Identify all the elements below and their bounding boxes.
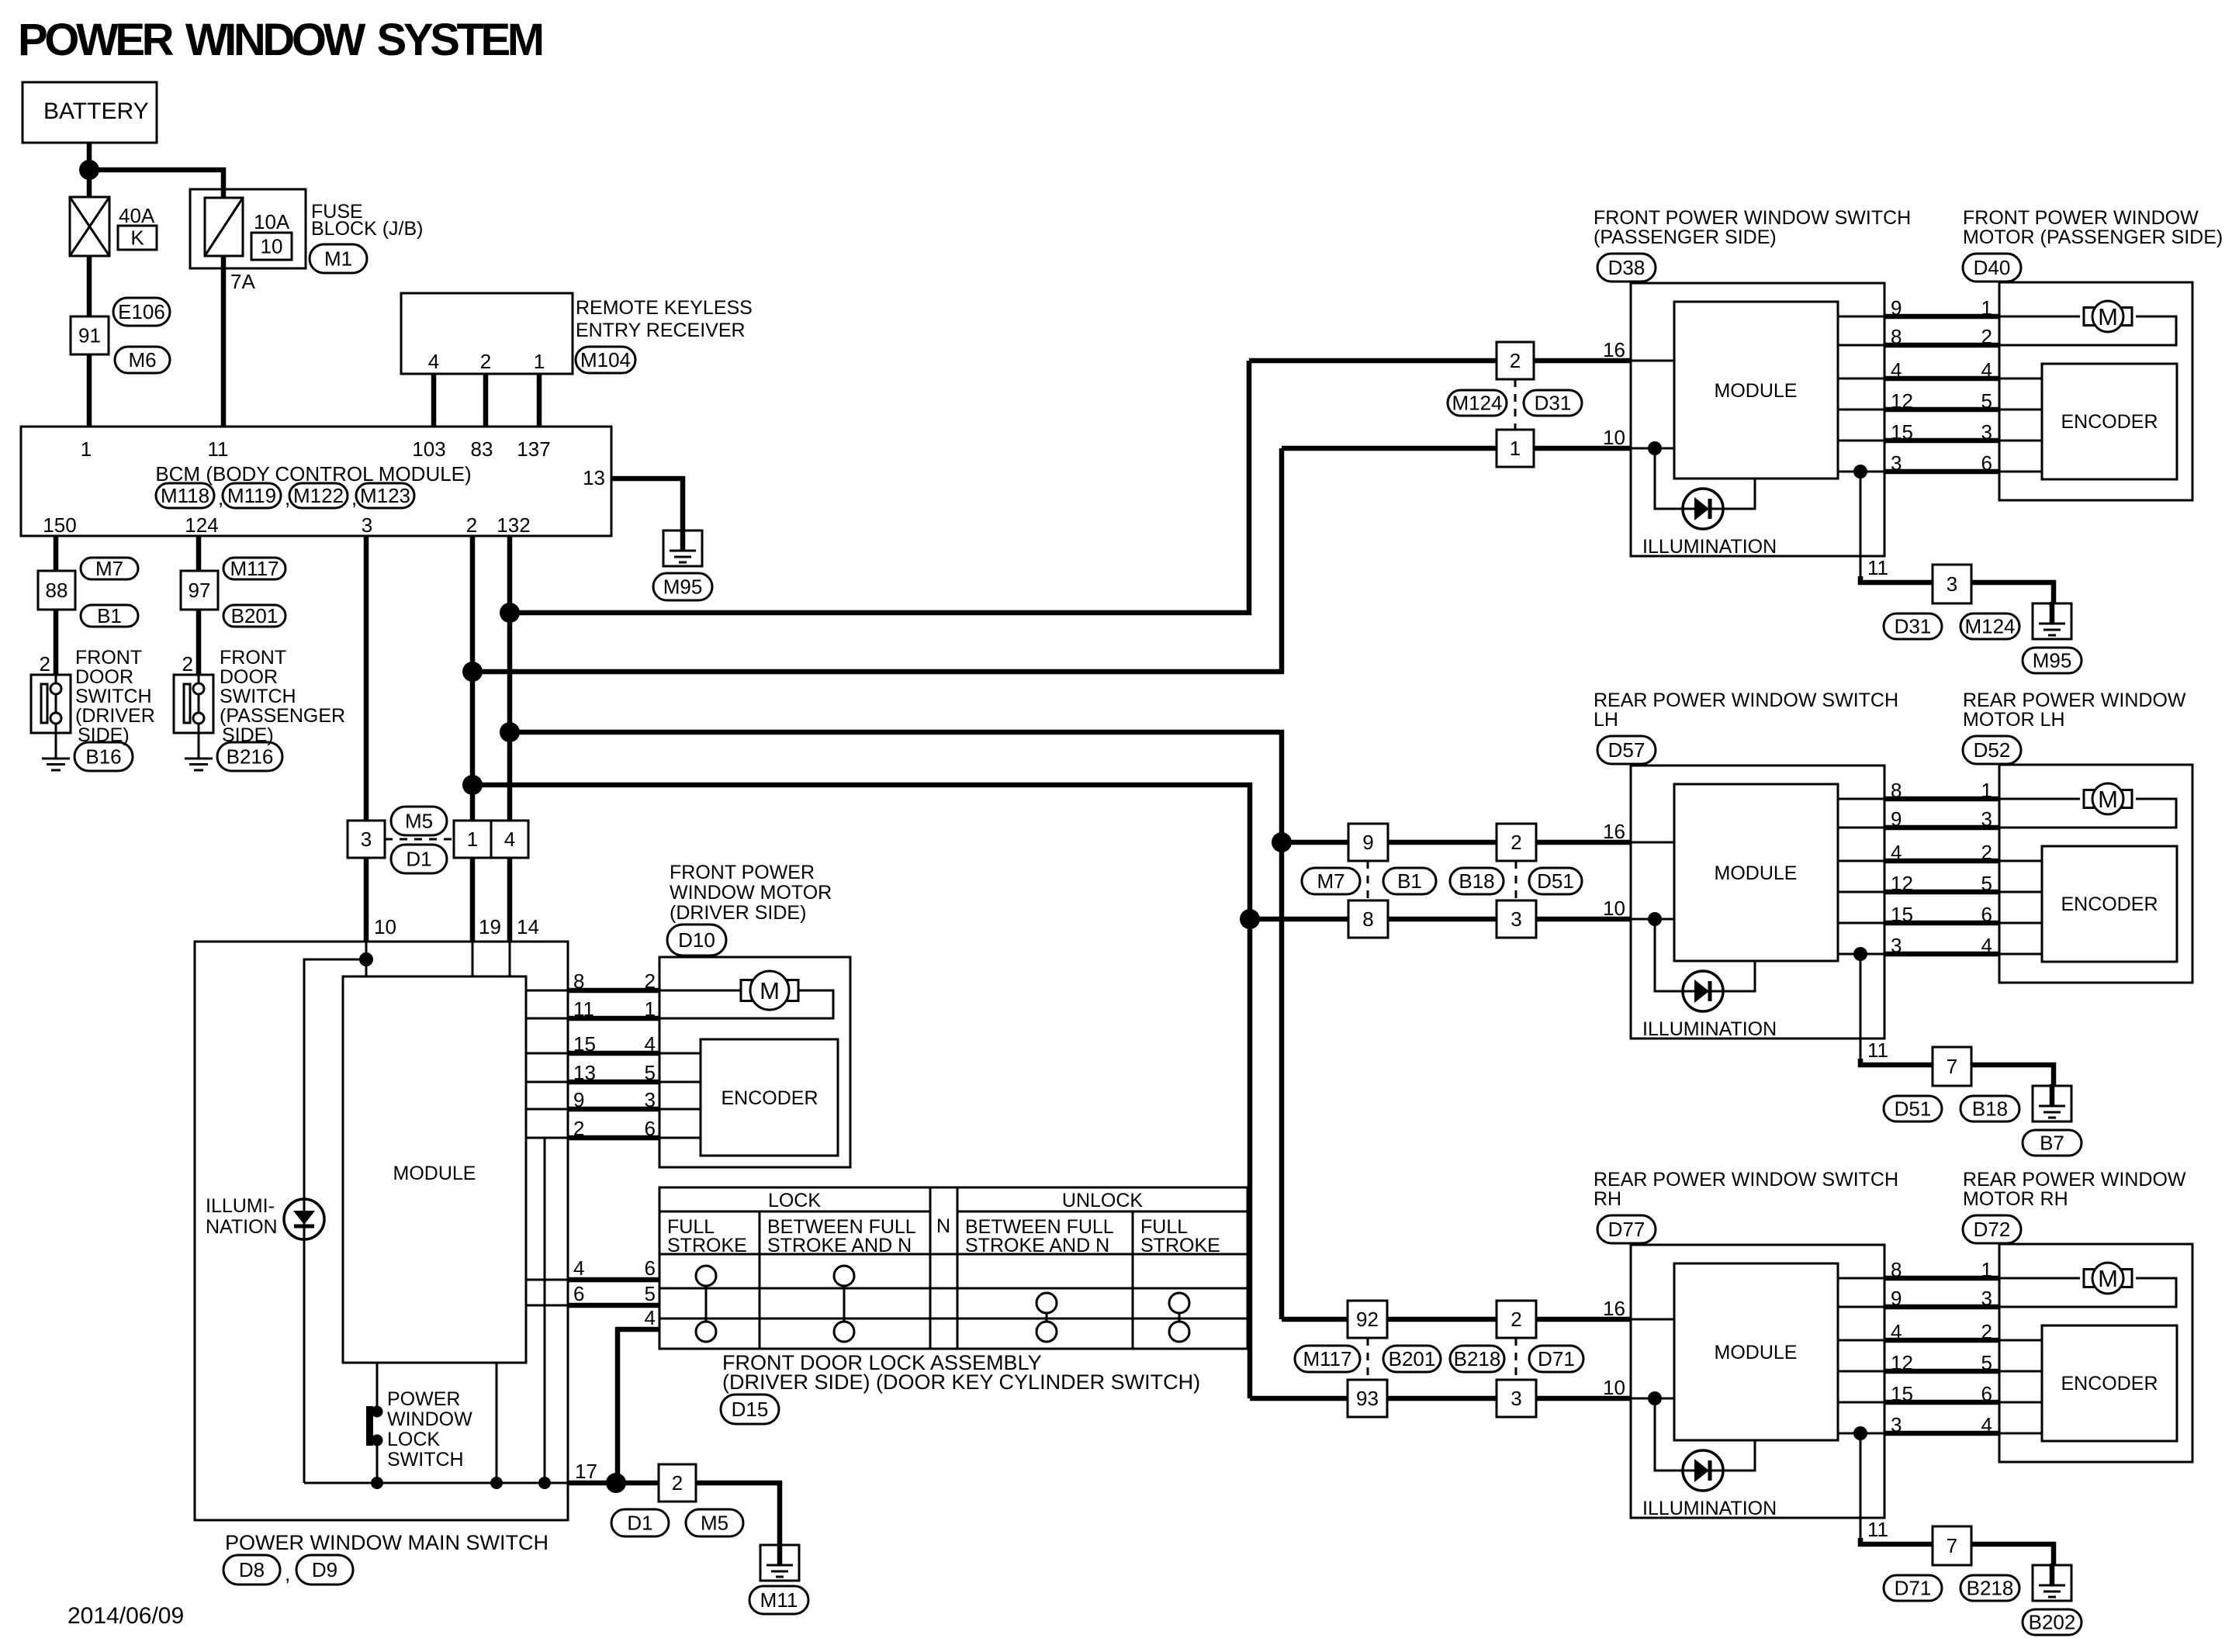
connector 88 box M7/B1 — [38, 571, 75, 610]
svg-text:ILLUMINATION: ILLUMINATION — [1642, 1498, 1777, 1519]
rear LH switch outer box — [1631, 766, 1884, 1039]
svg-text:6: 6 — [1981, 1382, 1992, 1405]
svg-text:19: 19 — [479, 915, 501, 938]
svg-text:SIDE): SIDE) — [222, 724, 274, 746]
svg-text:ENTRY RECEIVER: ENTRY RECEIVER — [576, 320, 746, 341]
front passenger wire 16 feed — [1249, 358, 1631, 364]
svg-text:2: 2 — [1981, 841, 1992, 864]
svg-text:4: 4 — [1891, 358, 1902, 382]
svg-text:POWER: POWER — [387, 1388, 460, 1410]
svg-text:N: N — [936, 1215, 950, 1237]
front door lock assembly table box — [659, 1187, 1248, 1349]
svg-text:1: 1 — [645, 997, 656, 1021]
rear RH connector B218 oval — [1960, 1575, 2019, 1601]
rear RH wire switch pin 15 to motor pin 6 — [1838, 1401, 1884, 1404]
rear RH wire switch pin 3 to motor pin 4 — [1838, 1433, 1884, 1435]
svg-text:D51: D51 — [1537, 869, 1574, 893]
rear RH wire 10 into module — [1631, 1398, 1674, 1400]
svg-text:M119: M119 — [227, 484, 276, 507]
connector 10 box — [251, 233, 292, 260]
connector M104 — [576, 347, 635, 373]
svg-text:D57: D57 — [1608, 738, 1646, 762]
junction bus1 on pin132 wire — [500, 603, 520, 623]
rear LH wire 10 into module — [1631, 918, 1674, 921]
svg-text:7: 7 — [1947, 1534, 1957, 1557]
wire battery to BCM pin 1 — [87, 143, 92, 427]
rear LH encoder box — [2042, 846, 2177, 962]
svg-text:B201: B201 — [231, 604, 279, 627]
svg-text:MODULE: MODULE — [1715, 380, 1798, 402]
svg-text:4: 4 — [1981, 1413, 1992, 1436]
table N column right line — [957, 1187, 959, 1349]
svg-text:3: 3 — [1891, 934, 1902, 957]
svg-text:5: 5 — [645, 1282, 656, 1305]
rear RH wires rows to encoder — [1999, 1339, 2042, 1342]
wire key cylinder pin4 down — [618, 1329, 659, 1483]
svg-text:D1: D1 — [627, 1512, 652, 1535]
connector D1 oval — [391, 845, 447, 873]
rear LH wire switch pin 3 to motor pin 4 — [1838, 953, 1884, 956]
svg-text:DOOR: DOOR — [75, 666, 133, 688]
connector D57 oval — [1597, 736, 1656, 764]
svg-text:40A: 40A — [119, 204, 155, 227]
svg-text:LOCK: LOCK — [387, 1429, 440, 1450]
svg-text:3: 3 — [1981, 1287, 1992, 1310]
ground B216 — [185, 758, 213, 760]
remote keyless entry receiver box M104 — [401, 293, 573, 374]
front passenger connector box 2 — [1497, 342, 1534, 379]
svg-text:103: 103 — [412, 437, 445, 461]
front door switch (passenger side) box — [198, 675, 200, 758]
wire motor row1 to M — [659, 990, 744, 992]
connector M11 oval — [749, 1586, 808, 1614]
wire BCM pin 13 to ground M95 — [611, 479, 683, 532]
svg-text:6: 6 — [645, 1256, 656, 1280]
svg-text:9: 9 — [1362, 831, 1373, 854]
svg-text:8: 8 — [1891, 325, 1902, 348]
connector B201 oval — [223, 605, 285, 627]
junction bus3 on pin132 wire — [500, 722, 520, 742]
fuse 10A symbol — [205, 198, 243, 256]
rear LH junction illumination tap — [1648, 912, 1662, 926]
rear LH wire switch pin 15 to motor pin 6 — [1838, 922, 1884, 924]
connector M122 — [289, 483, 348, 508]
front passenger connector M95 oval — [2023, 648, 2082, 673]
connector K box — [118, 226, 157, 250]
svg-text:M11: M11 — [760, 1588, 798, 1612]
svg-text:REAR POWER WINDOW: REAR POWER WINDOW — [1963, 689, 2186, 711]
front passenger motor outer box — [1999, 282, 2192, 500]
svg-text:4: 4 — [1981, 358, 1992, 382]
rear RH encoder box — [2042, 1325, 2177, 1441]
front passenger connector M124 oval — [1960, 613, 2019, 639]
connector 97 box M117/B201 — [181, 571, 218, 610]
svg-text:M124: M124 — [1452, 392, 1502, 415]
svg-text:88: 88 — [46, 579, 68, 602]
svg-text:15: 15 — [1891, 903, 1913, 926]
junction rail lock switch — [371, 1477, 383, 1489]
connector M5/D1 box 3 — [348, 821, 385, 858]
connector M6 — [115, 347, 170, 373]
svg-text:16: 16 — [1603, 1297, 1625, 1320]
rear RH junction pin 11 tap — [1853, 1426, 1867, 1440]
rear LH wire 10 feed — [1250, 917, 1631, 922]
svg-text:124: 124 — [185, 513, 218, 537]
junction battery feed split — [79, 160, 99, 180]
svg-text:2: 2 — [645, 969, 656, 993]
junction rear LH 10 — [1240, 909, 1260, 929]
svg-text:ENCODER: ENCODER — [721, 1087, 818, 1109]
svg-text:6: 6 — [645, 1117, 656, 1140]
dashed link B218 D71 — [1515, 1338, 1517, 1380]
svg-text:M122: M122 — [293, 484, 344, 507]
svg-text:B202: B202 — [2029, 1611, 2076, 1634]
svg-text:REMOTE KEYLESS: REMOTE KEYLESS — [576, 297, 753, 319]
svg-text:3: 3 — [1891, 1413, 1902, 1436]
connector B218 oval rear RH — [1450, 1346, 1504, 1372]
svg-text:K: K — [130, 226, 144, 250]
svg-text:M5: M5 — [701, 1512, 728, 1535]
connector M124 oval front — [1448, 390, 1507, 416]
svg-text:M95: M95 — [2033, 649, 2072, 672]
connector B201 oval rear RH — [1383, 1346, 1441, 1372]
ground M95 at BCM — [663, 531, 702, 566]
svg-text:150: 150 — [43, 513, 76, 537]
svg-text:10: 10 — [1603, 897, 1625, 920]
svg-text:MODULE: MODULE — [393, 1163, 476, 1184]
svg-text:M6: M6 — [128, 348, 156, 372]
svg-text:D38: D38 — [1608, 256, 1646, 279]
svg-text:B1: B1 — [1397, 869, 1422, 893]
svg-text:3: 3 — [645, 1088, 656, 1111]
connector M5 oval bottom — [686, 1509, 743, 1536]
front passenger encoder box — [2042, 364, 2177, 479]
svg-text:5: 5 — [1981, 389, 1992, 413]
front passenger junction pin 11 tap — [1853, 465, 1867, 479]
wire main switch pin 6 to table pin 5 — [526, 1305, 567, 1307]
rear LH illumination diode — [1683, 971, 1723, 1011]
svg-text:9: 9 — [1891, 296, 1902, 320]
junction bus4 on pin2 wire — [462, 775, 483, 795]
svg-text:(DRIVER SIDE) (DOOR KEY CYLIND: (DRIVER SIDE) (DOOR KEY CYLINDER SWITCH) — [722, 1370, 1200, 1394]
connector M95 oval — [653, 573, 712, 600]
svg-text:3: 3 — [1981, 807, 1992, 831]
svg-text:8: 8 — [1891, 779, 1902, 802]
connector B1 oval rear LH — [1383, 868, 1436, 894]
rear RH connector box 3 — [1497, 1380, 1536, 1417]
connector B1 oval — [81, 605, 138, 627]
table row line 1 — [659, 1253, 1248, 1256]
svg-text:ILLUMINATION: ILLUMINATION — [1642, 536, 1777, 558]
svg-text:14: 14 — [517, 915, 539, 938]
svg-text:E106: E106 — [118, 300, 165, 323]
svg-text:5: 5 — [1981, 872, 1992, 895]
rear RH wire 16 into module — [1631, 1318, 1674, 1321]
rear RH wire 10 feed — [1250, 1396, 1631, 1401]
table lock col2 contacts — [843, 1276, 846, 1332]
front passenger wire pin 11 to ground — [1860, 576, 2054, 605]
junction illumination branch — [359, 952, 373, 966]
rear LH junction pin 11 tap — [1853, 947, 1867, 961]
svg-text:11: 11 — [208, 437, 229, 461]
svg-text:10: 10 — [1603, 1376, 1625, 1399]
rear RH connector box 93 — [1348, 1380, 1387, 1417]
connector B16 oval — [74, 742, 133, 771]
svg-text:4: 4 — [504, 828, 515, 851]
motor M symbol driver — [741, 980, 752, 1001]
wire receiver pin 2 to BCM 83 — [483, 374, 489, 427]
svg-text:FRONT: FRONT — [220, 647, 286, 669]
svg-text:STROKE AND N: STROKE AND N — [767, 1235, 912, 1256]
rear LH connector B18 oval — [1960, 1096, 2019, 1121]
front passenger connector D31 oval — [1884, 613, 1942, 639]
svg-text:D8: D8 — [239, 1558, 265, 1581]
wire connector 2 to ground M11 — [696, 1483, 780, 1547]
svg-text:STROKE AND N: STROKE AND N — [965, 1235, 1109, 1256]
table header divider UNLOCK — [957, 1211, 1248, 1213]
svg-text:D31: D31 — [1895, 615, 1932, 638]
svg-text:FRONT POWER WINDOW SWITCH: FRONT POWER WINDOW SWITCH — [1594, 207, 1911, 229]
front passenger wire 16 into module — [1631, 360, 1674, 362]
rear LH connector D51 oval — [1884, 1096, 1942, 1121]
rear LH wire switch pin 4 to motor pin 2 — [1838, 860, 1884, 862]
svg-text:MODULE: MODULE — [1715, 1342, 1798, 1363]
svg-text:11: 11 — [573, 997, 594, 1021]
svg-text:SWITCH: SWITCH — [75, 686, 152, 707]
rear LH wire row1 to M — [1999, 798, 2080, 800]
wire BCM pin 2 to main switch pin 19 — [470, 536, 476, 942]
connector D15 oval — [721, 1395, 779, 1424]
front door switch (driver side) box — [55, 675, 57, 758]
svg-text:D15: D15 — [732, 1398, 769, 1421]
svg-text:(PASSENGER: (PASSENGER — [220, 705, 345, 727]
svg-text:M1: M1 — [324, 247, 352, 271]
connector M1 — [310, 244, 367, 273]
connector M118 — [156, 483, 214, 508]
rear LH connector box 3 — [1497, 900, 1536, 938]
rear LH module box — [1674, 784, 1838, 961]
svg-text:11: 11 — [1867, 1518, 1888, 1541]
svg-text:6: 6 — [1981, 451, 1992, 475]
rear RH wire switch pin 9 to motor pin 3 — [1838, 1306, 1884, 1308]
connector E106 — [113, 298, 170, 326]
svg-text:7A: 7A — [230, 270, 255, 293]
svg-text:STROKE: STROKE — [1140, 1235, 1220, 1256]
encoder box driver — [701, 1039, 838, 1156]
svg-text:MOTOR LH: MOTOR LH — [1963, 709, 2065, 731]
svg-text:2: 2 — [1511, 831, 1521, 854]
svg-text:2: 2 — [480, 350, 491, 373]
fuse block (J/B) box M1 — [190, 189, 306, 268]
wire main switch pin 2 to motor pin 6 — [526, 1137, 567, 1139]
junction pin17 with key cylinder wire — [606, 1473, 626, 1493]
svg-text:M124: M124 — [1964, 615, 2015, 638]
wire receiver pin 1 to BCM 137 — [537, 374, 542, 427]
svg-text:(DRIVER SIDE): (DRIVER SIDE) — [670, 902, 806, 924]
svg-text:WINDOW MOTOR: WINDOW MOTOR — [670, 882, 832, 904]
front passenger ground box — [2033, 603, 2071, 639]
svg-text:12: 12 — [1891, 872, 1913, 895]
svg-text:D52: D52 — [1974, 738, 2011, 762]
connector D71 oval rear RH — [1529, 1346, 1583, 1372]
connector M7 oval — [81, 558, 138, 579]
svg-text:83: 83 — [471, 437, 493, 461]
svg-text:REAR POWER WINDOW SWITCH: REAR POWER WINDOW SWITCH — [1594, 689, 1898, 711]
svg-text:B218: B218 — [1454, 1347, 1501, 1370]
svg-text:ILLUMI-: ILLUMI- — [206, 1195, 275, 1217]
svg-text:,: , — [285, 1562, 290, 1585]
wire main switch pin 8 to motor pin 2 — [526, 990, 567, 992]
wire BCM pin 3 to main switch pin 10 — [364, 536, 369, 942]
battery B — [22, 82, 157, 143]
rear LH connector box 8 — [1348, 900, 1388, 938]
front power window motor driver side box — [659, 957, 850, 1167]
rear RH wire pin 11 down — [1860, 1433, 1862, 1544]
power window main switch outer box — [195, 942, 568, 1520]
svg-text:D1: D1 — [406, 848, 431, 871]
table N column left line — [929, 1187, 932, 1349]
svg-text:13: 13 — [583, 466, 605, 489]
bus wire 3 to rear 16 feeds — [510, 732, 1282, 1319]
svg-text:BATTERY: BATTERY — [43, 98, 149, 124]
connector B18 oval rear LH — [1450, 868, 1504, 894]
svg-text:4: 4 — [428, 350, 439, 373]
connector B216 oval — [217, 742, 282, 771]
dashed link M5 D1 — [385, 838, 454, 841]
svg-text:M7: M7 — [95, 557, 123, 580]
wire main switch pin 13 to motor pin 5 — [526, 1081, 567, 1083]
svg-text:16: 16 — [1603, 820, 1625, 843]
svg-text:9: 9 — [1891, 1287, 1902, 1310]
wire module bottom to rail — [496, 1363, 498, 1483]
svg-text:DOOR: DOOR — [220, 666, 278, 688]
svg-text:12: 12 — [1891, 1351, 1913, 1374]
svg-text:SIDE): SIDE) — [78, 724, 130, 746]
rear RH wire switch pin 4 to motor pin 2 — [1838, 1339, 1884, 1342]
svg-text:2: 2 — [1981, 325, 1992, 348]
table col divider lock — [759, 1211, 761, 1349]
wire rows to encoder driver — [659, 1052, 701, 1055]
rear RH switch outer box — [1631, 1245, 1884, 1518]
rear RH connector B202 oval — [2023, 1609, 2082, 1635]
rear LH wire motor return row2 — [1999, 799, 2176, 828]
fusible link 40A K — [70, 197, 109, 256]
junction bus2 on pin2 wire — [462, 662, 483, 682]
svg-text:3: 3 — [1511, 1387, 1521, 1410]
wire pin10 into module — [365, 942, 368, 976]
rear RH junction illumination tap — [1648, 1391, 1662, 1405]
front passenger wire switch pin 8 to motor pin 2 — [1838, 344, 1884, 347]
svg-text:3: 3 — [361, 828, 372, 851]
svg-text:15: 15 — [573, 1032, 596, 1056]
svg-text:MOTOR (PASSENGER SIDE): MOTOR (PASSENGER SIDE) — [1963, 226, 2223, 248]
rear RH connector box 2 — [1497, 1301, 1536, 1338]
connector D52 oval — [1963, 736, 2021, 764]
svg-text:LOCK: LOCK — [768, 1190, 821, 1211]
svg-text:2: 2 — [466, 513, 477, 537]
svg-text:15: 15 — [1891, 420, 1913, 444]
BCM (body control module) box — [21, 427, 611, 536]
wire receiver pin 4 to BCM 103 — [431, 374, 437, 427]
svg-text:M: M — [2098, 1265, 2118, 1292]
svg-text:SWITCH: SWITCH — [387, 1449, 464, 1471]
svg-text:1: 1 — [467, 828, 478, 851]
svg-text:NATION: NATION — [206, 1216, 278, 1238]
front passenger motor M symbol — [2084, 308, 2094, 326]
svg-text:3: 3 — [1981, 420, 1992, 444]
bus wire 2 to front passenger 10 — [472, 448, 1282, 672]
connector D51 oval rear LH — [1529, 868, 1582, 894]
svg-text:ENCODER: ENCODER — [2061, 1373, 2158, 1395]
svg-text:17: 17 — [575, 1460, 597, 1483]
svg-text:3: 3 — [362, 513, 372, 537]
rear RH wire switch pin 8 to motor pin 1 — [1838, 1277, 1884, 1280]
svg-text:2: 2 — [182, 652, 193, 676]
svg-text:8: 8 — [1362, 907, 1373, 931]
svg-text:13: 13 — [573, 1061, 596, 1084]
power window lock switch contacts — [366, 1406, 373, 1446]
junction rail tap — [538, 1477, 551, 1489]
svg-text:FRONT: FRONT — [75, 647, 142, 669]
wire BCM pin 124 to passenger door switch — [196, 536, 202, 675]
svg-text:B18: B18 — [1972, 1097, 2008, 1121]
svg-text:D31: D31 — [1535, 392, 1572, 415]
svg-text:M118: M118 — [161, 484, 209, 507]
svg-text:10: 10 — [374, 915, 396, 938]
svg-text:B16: B16 — [85, 745, 121, 769]
rear RH wire row1 to M — [1999, 1277, 2080, 1280]
front passenger connector box 3 — [1933, 565, 1971, 603]
svg-text:137: 137 — [517, 437, 550, 461]
connector D72 oval — [1963, 1215, 2021, 1243]
svg-text:RH: RH — [1594, 1188, 1621, 1210]
connector D8 oval — [223, 1555, 280, 1585]
svg-text:15: 15 — [1891, 1382, 1913, 1405]
connector 91 box E106/M6 — [71, 316, 109, 354]
front passenger wire switch pin 15 to motor pin 3 — [1838, 440, 1884, 442]
rear LH wires rows to encoder — [1999, 860, 2042, 862]
svg-text:(DRIVER: (DRIVER — [75, 705, 155, 727]
front passenger wire row1 to M — [1999, 316, 2080, 318]
svg-text:1: 1 — [534, 350, 545, 373]
svg-text:LH: LH — [1594, 709, 1618, 731]
front passenger junction illumination tap — [1648, 441, 1662, 455]
svg-text:M: M — [2098, 303, 2118, 330]
connector D38 oval — [1597, 254, 1656, 282]
wire battery junction to fuse 10A — [89, 170, 223, 427]
svg-text:M117: M117 — [1303, 1347, 1351, 1370]
svg-text:9: 9 — [573, 1088, 584, 1111]
svg-text:16: 16 — [1603, 338, 1625, 361]
svg-text:D51: D51 — [1895, 1097, 1932, 1121]
svg-text:POWER WINDOW SYSTEM: POWER WINDOW SYSTEM — [18, 15, 542, 65]
svg-text:D71: D71 — [1895, 1577, 1932, 1600]
wire main switch pin 15 to motor pin 4 — [526, 1052, 567, 1055]
front passenger wire pin 11 down — [1860, 472, 1862, 582]
svg-text:M: M — [2098, 786, 2118, 813]
svg-text:B18: B18 — [1459, 869, 1494, 893]
rear RH ground box — [2033, 1565, 2071, 1601]
svg-text:FRONT POWER WINDOW: FRONT POWER WINDOW — [1963, 207, 2199, 229]
front passenger illumination diode wire — [1655, 448, 1755, 509]
rear RH connector box 7 — [1933, 1526, 1971, 1565]
rear RH connector box 92 — [1348, 1301, 1387, 1338]
wire BCM pin 150 to driver door switch — [54, 536, 59, 675]
svg-text:ENCODER: ENCODER — [2061, 411, 2158, 433]
svg-text:M104: M104 — [580, 348, 631, 372]
rear RH wire 16 feed — [1282, 1317, 1631, 1322]
svg-text:92: 92 — [1356, 1308, 1379, 1331]
